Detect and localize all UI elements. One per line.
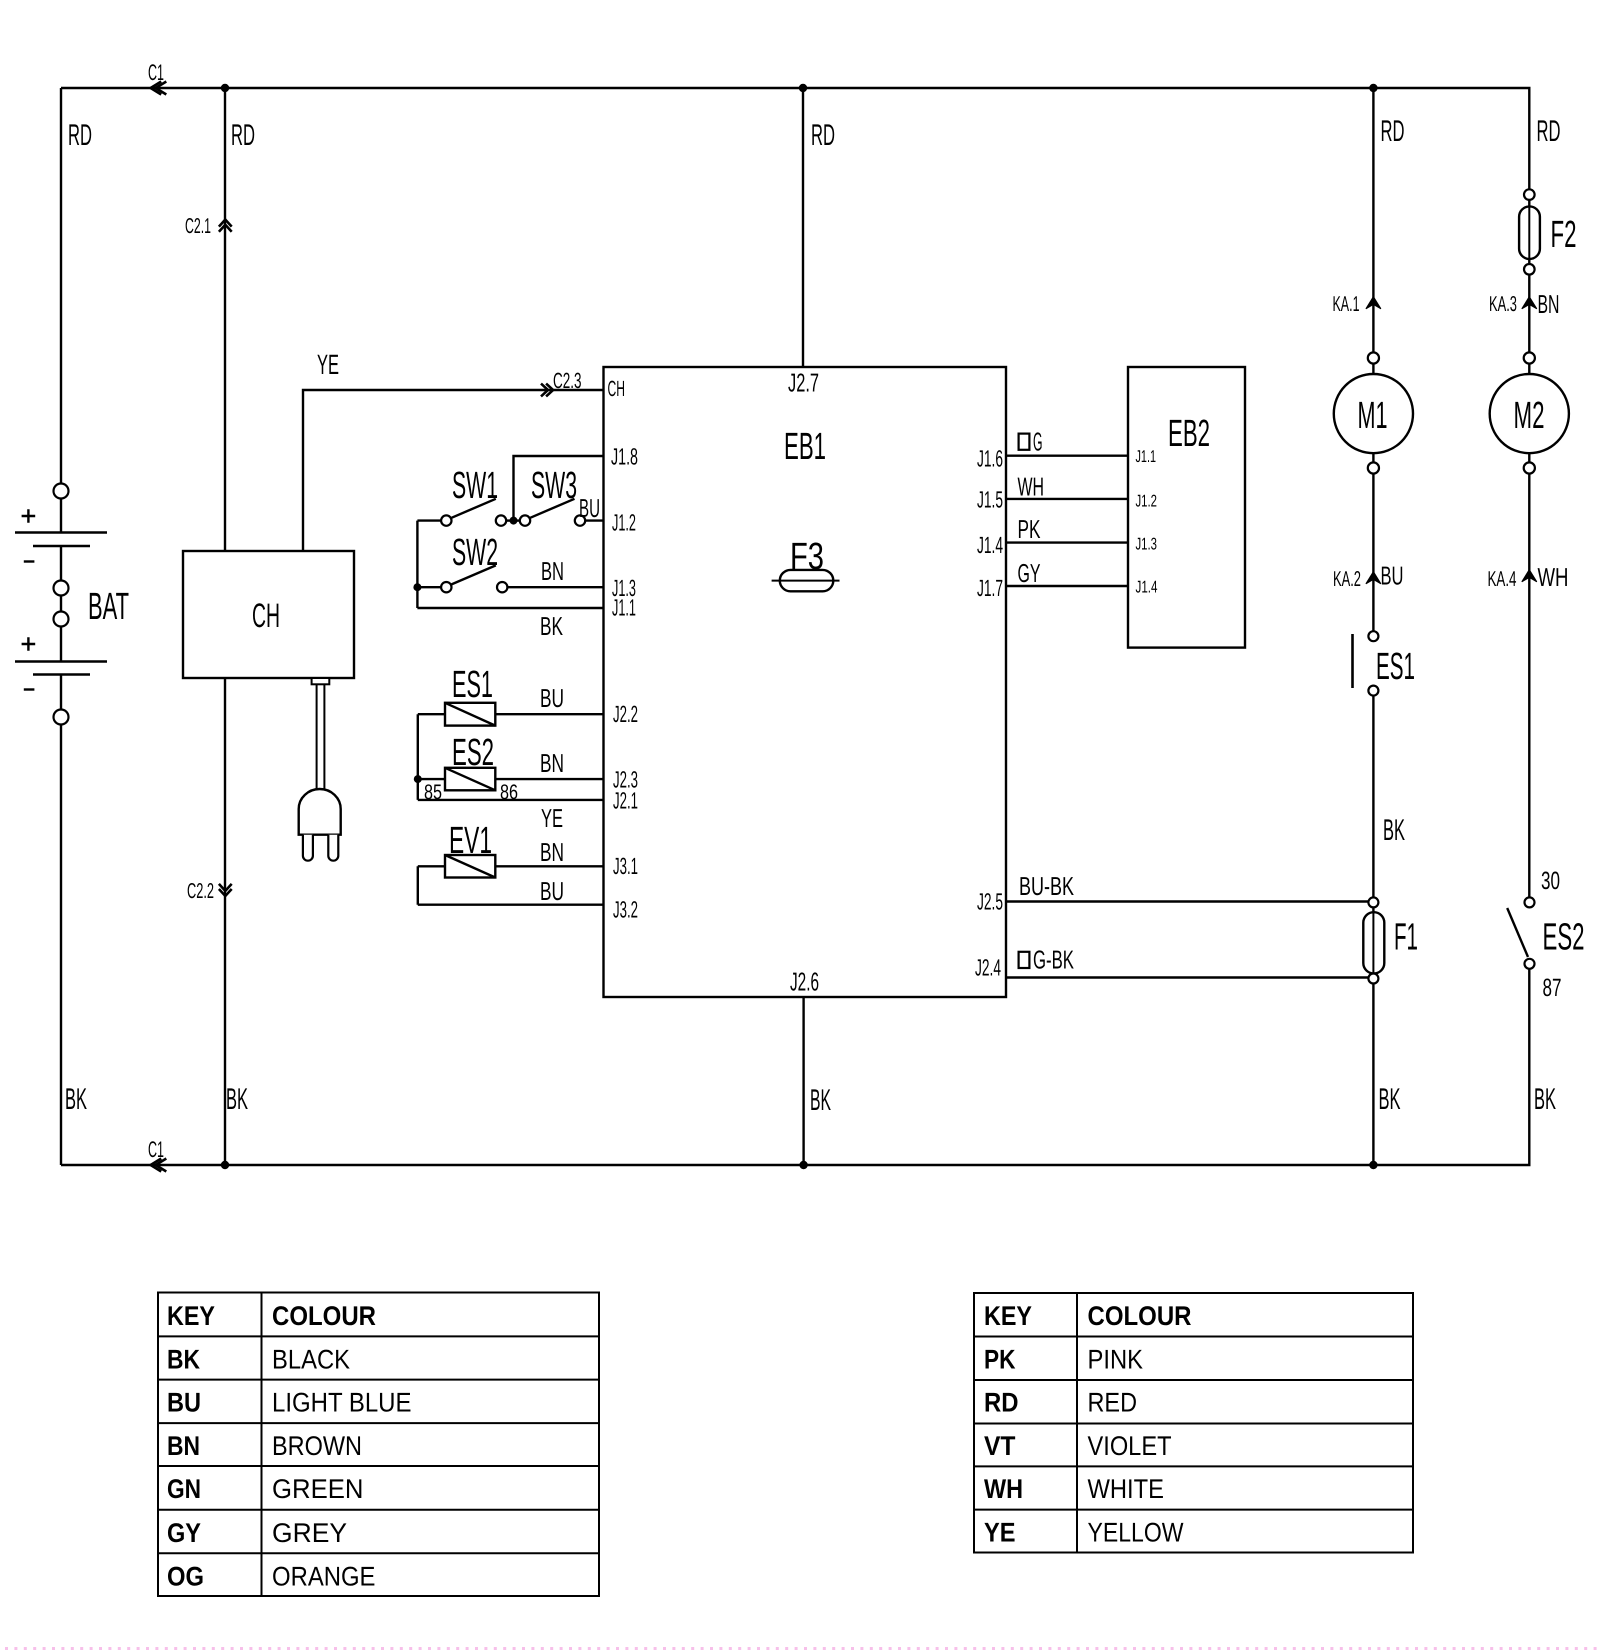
svg-text:COLOUR: COLOUR	[1088, 1301, 1192, 1331]
svg-text:SW1: SW1	[452, 465, 498, 507]
label OG	[1019, 427, 1043, 457]
svg-text:BK: BK	[540, 611, 563, 641]
svg-text:ES2: ES2	[1543, 917, 1585, 959]
label OG-BK	[1019, 945, 1075, 975]
svg-text:PK: PK	[984, 1345, 1016, 1375]
switch SW3	[520, 499, 585, 526]
key table right (wire colour legend)	[974, 1293, 1413, 1553]
key table left (wire colour legend)	[158, 1293, 599, 1597]
wire charger rail (x=225, top)	[224, 88, 226, 551]
svg-text:BK: BK	[1383, 814, 1405, 847]
svg-text:GY: GY	[1018, 558, 1041, 588]
svg-text:C2.2: C2.2	[187, 879, 214, 903]
svg-text:VT: VT	[984, 1431, 1016, 1461]
wire J1.3	[507, 586, 603, 588]
svg-text:BN: BN	[167, 1431, 200, 1461]
svg-text:WH: WH	[1538, 562, 1569, 592]
node C2.3 (right arrow + label)	[541, 384, 553, 397]
wire J1.8	[514, 456, 604, 521]
svg-text:C1: C1	[148, 60, 164, 85]
svg-text:J3.2: J3.2	[613, 897, 638, 923]
switch ES2 (relay contact)	[1507, 897, 1534, 968]
svg-text:KA.3: KA.3	[1489, 292, 1517, 316]
svg-text:BN: BN	[540, 837, 564, 867]
svg-text:C2.3: C2.3	[553, 368, 582, 393]
svg-text:BK: BK	[167, 1345, 200, 1375]
svg-text:PINK: PINK	[1088, 1345, 1144, 1375]
motor M2	[1490, 352, 1569, 473]
svg-text:VIOLET: VIOLET	[1088, 1431, 1172, 1461]
svg-text:GREY: GREY	[272, 1518, 347, 1548]
control unit EB2	[1128, 367, 1245, 648]
svg-text:GY: GY	[167, 1518, 201, 1548]
svg-text:J1.3: J1.3	[1136, 535, 1158, 554]
wire bottom BK bus	[61, 1164, 1531, 1166]
switch SW1	[441, 499, 506, 526]
relay coil ES2	[445, 768, 495, 791]
svg-text:WHITE: WHITE	[1088, 1474, 1165, 1504]
svg-text:EB1: EB1	[784, 426, 826, 468]
svg-text:KEY: KEY	[984, 1301, 1032, 1331]
wire YE from CH to EB1	[303, 390, 604, 551]
svg-text:J2.2: J2.2	[613, 701, 638, 727]
svg-text:J1.6: J1.6	[977, 446, 1003, 472]
relay coil ES1	[445, 703, 495, 726]
svg-text:BAT: BAT	[88, 586, 129, 628]
svg-text:BK: BK	[65, 1083, 87, 1116]
svg-text:ORANGE: ORANGE	[272, 1561, 376, 1591]
svg-text:KA.2: KA.2	[1333, 567, 1361, 591]
wire J1.2	[585, 519, 603, 521]
junction (1373.4,88)	[1369, 84, 1377, 92]
svg-text:RD: RD	[811, 119, 835, 152]
wire J1.4 to EB2 J1.3 (PK)	[1006, 541, 1128, 543]
svg-text:J1.2: J1.2	[612, 510, 636, 536]
charger CH	[183, 551, 354, 678]
node KA.3 (up dart + labels)	[1522, 297, 1537, 309]
node C2.2 (down arrow + label)	[219, 884, 232, 896]
switch ES1 (plunger contact)	[1353, 631, 1379, 695]
svg-text:J1.5: J1.5	[977, 487, 1003, 513]
svg-text:BU: BU	[1381, 561, 1404, 591]
svg-text:OG: OG	[167, 1561, 204, 1591]
svg-text:BROWN: BROWN	[272, 1431, 362, 1461]
bottom dotted margin line	[5, 1647, 1600, 1650]
svg-text:RD: RD	[231, 119, 255, 152]
svg-text:C2.1: C2.1	[185, 214, 211, 238]
node C1 (top, arrow + label)	[151, 82, 167, 95]
wire M2 branch (x=1529.3)	[1528, 88, 1530, 1165]
control unit EB1	[604, 367, 1007, 997]
junction (417.8,779.1)	[414, 775, 422, 783]
svg-text:J2.6: J2.6	[790, 967, 819, 997]
svg-text:J1.1: J1.1	[1136, 447, 1157, 466]
wire EB1 J2.6 to bottom bus	[802, 997, 804, 1165]
svg-text:BN: BN	[540, 748, 564, 778]
wire ES1 row / rail	[418, 714, 604, 800]
svg-text:G: G	[1033, 427, 1043, 457]
svg-text:RD: RD	[68, 119, 92, 152]
svg-text:J2.4: J2.4	[975, 955, 1001, 981]
junction (513.5,520.6)	[510, 517, 518, 525]
junction (803.6,1165)	[799, 1161, 807, 1169]
svg-text:BU: BU	[579, 493, 600, 523]
svg-text:C1: C1	[148, 1137, 164, 1162]
wire J2.5 (BU-BK)	[1006, 900, 1373, 902]
svg-text:YE: YE	[984, 1518, 1016, 1548]
svg-text:M2: M2	[1514, 395, 1545, 437]
svg-text:COLOUR: COLOUR	[272, 1301, 376, 1331]
svg-text:BK: BK	[1534, 1083, 1556, 1116]
solenoid valve EV1	[445, 855, 495, 878]
plug (mains plug below CH)	[299, 678, 341, 861]
junction (803,88)	[799, 84, 807, 92]
svg-text:BN: BN	[541, 556, 564, 586]
motor M1	[1334, 352, 1413, 473]
svg-text:ES1: ES1	[1376, 646, 1415, 688]
svg-text:GREEN: GREEN	[272, 1474, 364, 1504]
svg-text:RED: RED	[1088, 1388, 1138, 1418]
svg-text:ES2: ES2	[452, 732, 494, 774]
svg-text:RD: RD	[1537, 115, 1561, 148]
battery BAT	[15, 484, 107, 725]
node KA.2 (up dart + labels)	[1366, 572, 1381, 584]
svg-text:J1.1: J1.1	[612, 595, 636, 621]
svg-text:J1.8: J1.8	[611, 444, 638, 470]
svg-text:J2.5: J2.5	[977, 889, 1003, 915]
svg-text:EB2: EB2	[1168, 413, 1210, 455]
wire J1.6 to EB2 J1.1 (OG)	[1006, 455, 1128, 457]
svg-text:WH: WH	[984, 1474, 1023, 1504]
junction (225,88)	[221, 84, 229, 92]
wire J2.1 row	[418, 799, 604, 801]
node C1 (bottom, arrow + label)	[151, 1159, 167, 1172]
svg-text:J1.2: J1.2	[1136, 492, 1158, 511]
wire M1 branch (x=1373.4)	[1372, 88, 1374, 1165]
svg-text:BN: BN	[1538, 289, 1560, 319]
wire SW rail left	[417, 521, 603, 608]
switch SW2	[441, 565, 507, 592]
wire SW1-SW3 link	[506, 519, 520, 521]
wire top RD bus	[61, 87, 1531, 89]
node KA.1 (up dart + label)	[1366, 297, 1381, 309]
svg-text:KA.1: KA.1	[1333, 292, 1360, 316]
node C2.1 (up arrow + label)	[219, 220, 232, 232]
svg-text:WH: WH	[1018, 472, 1045, 502]
svg-text:YELLOW: YELLOW	[1088, 1518, 1184, 1548]
svg-text:PK: PK	[1018, 514, 1041, 544]
wire EB1 J2.7 to top bus	[802, 88, 804, 367]
svg-text:BU: BU	[167, 1388, 201, 1418]
junction (225,1165)	[221, 1161, 229, 1169]
svg-text:BU-BK: BU-BK	[1019, 871, 1074, 901]
svg-text:M1: M1	[1358, 395, 1388, 437]
wire charger rail (x=225, bottom)	[224, 678, 226, 1165]
svg-text:BU: BU	[540, 683, 564, 713]
fuse F1	[1363, 897, 1384, 983]
wire ES2 row	[418, 778, 604, 780]
fuse F3 (inside EB1)	[772, 570, 840, 591]
wire J1.5 to EB2 J1.2 (WH)	[1006, 498, 1128, 500]
svg-text:J1.7: J1.7	[977, 575, 1003, 601]
svg-text:RD: RD	[1381, 115, 1405, 148]
svg-text:GN: GN	[167, 1474, 201, 1504]
wire EV1 row / rail	[418, 866, 604, 904]
svg-text:SW2: SW2	[452, 532, 498, 574]
svg-text:F3: F3	[790, 536, 824, 578]
svg-text:J2.1: J2.1	[613, 788, 638, 814]
svg-text:ES1: ES1	[452, 664, 493, 706]
svg-text:BK: BK	[1379, 1083, 1401, 1116]
svg-text:BK: BK	[810, 1084, 831, 1117]
node KA.4 (up dart + labels)	[1522, 570, 1537, 582]
svg-text:F2: F2	[1551, 214, 1577, 256]
svg-text:F1: F1	[1394, 917, 1418, 959]
svg-text:LIGHT BLUE: LIGHT BLUE	[272, 1388, 412, 1418]
wire J2.4 (OG-BK)	[1006, 976, 1373, 978]
junction (417.4,587.2)	[413, 583, 421, 591]
svg-text:RD: RD	[984, 1388, 1019, 1418]
svg-text:CH: CH	[252, 597, 280, 635]
svg-text:SW3: SW3	[531, 465, 577, 507]
svg-text:BU: BU	[540, 876, 564, 906]
wire left battery rail (x=61)	[60, 88, 62, 1165]
svg-text:J2.7: J2.7	[788, 368, 819, 398]
svg-text:EV1: EV1	[449, 820, 492, 862]
junction (1373.4,1165)	[1369, 1161, 1377, 1169]
svg-text:KA.4: KA.4	[1488, 567, 1517, 591]
svg-text:BK: BK	[226, 1083, 248, 1116]
svg-text:J1.4: J1.4	[977, 532, 1003, 558]
svg-text:87: 87	[1543, 974, 1562, 1002]
svg-text:G-BK: G-BK	[1033, 945, 1074, 975]
fuse F2	[1519, 189, 1540, 274]
svg-text:YE: YE	[317, 349, 339, 380]
svg-text:30: 30	[1541, 867, 1560, 895]
svg-text:BLACK: BLACK	[272, 1345, 350, 1375]
wire J1.7 to EB2 J1.4 (GY)	[1006, 585, 1128, 587]
svg-text:YE: YE	[541, 803, 563, 833]
svg-text:KEY: KEY	[167, 1301, 215, 1331]
svg-text:J3.1: J3.1	[613, 853, 638, 879]
svg-text:J1.4: J1.4	[1136, 578, 1158, 597]
svg-text:CH: CH	[608, 376, 626, 401]
